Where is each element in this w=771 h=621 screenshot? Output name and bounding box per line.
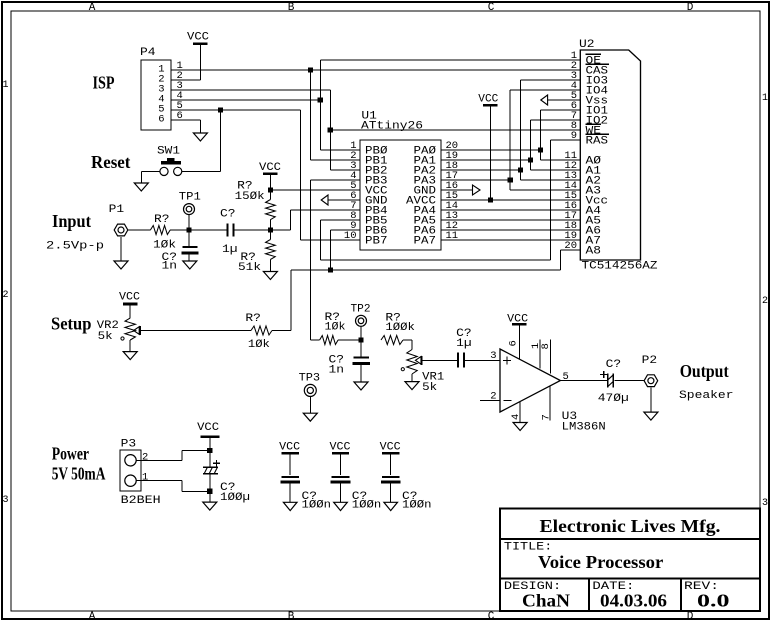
- wire A8 column to U2 pin20: [560, 250, 562, 270]
- ground at VR1: [405, 382, 419, 390]
- wire P4 pin6 to ground: [171, 119, 200, 121]
- wire VR1 to ground: [411, 374, 413, 382]
- svg-text:3: 3: [490, 350, 496, 362]
- wire op-amp output pin 5: [560, 380, 607, 382]
- test point TP1: [184, 204, 195, 215]
- svg-text:P2: P2: [642, 355, 658, 367]
- wire column IO2 to PA1 to A1: [530, 120, 532, 170]
- svg-text:Reset: Reset: [91, 152, 130, 172]
- potentiometer VR2 wiper: [134, 327, 140, 335]
- svg-text:47Øµ: 47Øµ: [598, 393, 629, 405]
- IC U2 body with beveled corner: [580, 50, 640, 260]
- svg-text:VCC: VCC: [380, 441, 401, 453]
- ground at P1: [114, 261, 128, 269]
- IC U1 body: [360, 140, 441, 250]
- junction PA3/IO4/A3: [508, 177, 513, 182]
- wire C 1u to bias node: [234, 229, 271, 231]
- junction AVCC VCC stem: [488, 197, 493, 202]
- svg-text:LM386N: LM386N: [562, 422, 606, 434]
- svg-text:20: 20: [564, 240, 577, 252]
- svg-text:7: 7: [541, 414, 553, 420]
- junction P4.1/PB1 column: [308, 67, 313, 72]
- svg-text:1ØØn: 1ØØn: [402, 500, 432, 512]
- svg-text:1µ: 1µ: [456, 338, 472, 350]
- wire P4 pin4 (MISO net) row 100: [171, 99, 320, 101]
- op-amp pin 1 stub: [539, 340, 541, 369]
- connector P3 pin circles: [125, 455, 136, 466]
- svg-text:TP2: TP2: [351, 304, 371, 316]
- connector P4 body: [141, 60, 171, 130]
- svg-text:VCC: VCC: [279, 441, 300, 453]
- wire C 1u to op-amp +input: [464, 359, 500, 361]
- svg-text:P4: P4: [140, 47, 156, 59]
- svg-text:2: 2: [490, 391, 496, 403]
- svg-text:2: 2: [2, 290, 8, 301]
- svg-text:VCC: VCC: [478, 94, 498, 106]
- svg-text:TP1: TP1: [179, 192, 201, 204]
- wire P4 pin1 to U2 CAS (row 70): [171, 69, 580, 71]
- svg-text:C?: C?: [606, 359, 622, 371]
- svg-text:VCC: VCC: [259, 162, 281, 174]
- svg-text:C?: C?: [220, 209, 236, 221]
- wire column P4.1 down to U1 PB1: [309, 70, 311, 160]
- junction VCC/U1 VCC row: [268, 187, 273, 192]
- title block dividers: [500, 538, 760, 540]
- wire U1 PA6 to U2 A6 row 230: [441, 229, 580, 231]
- wire column IO3 to PA2 to A2: [520, 80, 522, 180]
- capacitor C? 100n (decoupling 3): [390, 455, 392, 476]
- svg-text:VCC: VCC: [119, 292, 140, 304]
- junction PB6/A8/Setup net: [328, 267, 333, 272]
- svg-text:VCC: VCC: [187, 32, 209, 44]
- junction P4.4 on OE/PB0 column: [318, 97, 323, 102]
- wire column IO1 to PA0 to A0: [540, 110, 542, 160]
- svg-text:5k: 5k: [422, 382, 437, 394]
- svg-text:R?: R?: [245, 313, 261, 325]
- wire P4 pin2 to VCC: [171, 79, 200, 81]
- wire setup R 10k to PB6 net column: [272, 330, 291, 332]
- svg-text:2: 2: [762, 296, 768, 307]
- ground at mixer filter cap: [354, 382, 368, 390]
- wire VR1 wiper to C 1u: [422, 359, 457, 361]
- junction PA0/IO1/A0: [538, 147, 543, 152]
- test point TP2: [356, 315, 367, 326]
- connector P2 (output jack): [644, 375, 658, 387]
- wire U1 pin16 GND arrow: [441, 189, 473, 191]
- wire P2 to ground: [650, 388, 652, 413]
- ground at power input: [203, 502, 217, 510]
- svg-text:VCC: VCC: [197, 422, 219, 434]
- wire U1 PB6 row 230 to A8 net: [330, 229, 360, 231]
- wire column IO4 to PA3 to A3: [509, 90, 511, 190]
- svg-text:Voice Processor: Voice Processor: [538, 552, 663, 572]
- svg-text:TC514256AZ: TC514256AZ: [582, 261, 658, 273]
- junction PA2/IO3/A2: [518, 167, 523, 172]
- connector P3 body: [120, 450, 141, 491]
- wire U1 PB3 row 180 to mixer column: [310, 179, 360, 181]
- capacitor C? 100n (decoupling 2): [340, 455, 342, 476]
- junction VCC/C100u top: [207, 448, 212, 453]
- svg-text:3: 3: [2, 495, 8, 506]
- junction input bias node: [268, 227, 273, 232]
- wire U1 AVCC to U2 Vcc row 200: [441, 199, 580, 201]
- ground at decoupling cap 3: [384, 502, 398, 510]
- svg-text:1ØØk: 1ØØk: [385, 322, 415, 334]
- svg-text:1n: 1n: [162, 261, 178, 273]
- wire VCC to op-amp pin 6: [518, 326, 520, 360]
- svg-text:9: 9: [571, 130, 577, 142]
- svg-text:2: 2: [142, 451, 148, 463]
- svg-text:Input: Input: [52, 211, 91, 231]
- svg-text:VCC: VCC: [330, 441, 351, 453]
- svg-text:5: 5: [563, 371, 569, 383]
- op-amp U3 plus marker: [503, 360, 511, 362]
- svg-text:ATtiny26: ATtiny26: [361, 121, 423, 133]
- junction TP1 node: [186, 227, 191, 232]
- svg-text:5V 50mA: 5V 50mA: [52, 463, 106, 483]
- svg-text:3: 3: [762, 498, 768, 509]
- ground at decoupling cap 2: [334, 502, 348, 510]
- wire P3 pin2 to VCC node: [136, 459, 182, 461]
- switch SW1 pushbutton symbol: [161, 161, 181, 164]
- svg-text:Setup: Setup: [51, 314, 91, 334]
- svg-text:04.03.06: 04.03.06: [600, 591, 667, 611]
- svg-text:D: D: [687, 611, 694, 621]
- svg-text:P1: P1: [109, 204, 125, 216]
- wire U1 pin6 GND arrow: [328, 199, 360, 201]
- svg-text:2.5Vp-p: 2.5Vp-p: [46, 241, 104, 253]
- svg-text:B: B: [288, 611, 295, 621]
- svg-text:15Øk: 15Øk: [235, 191, 265, 203]
- ground at decoupling cap 1: [283, 502, 297, 510]
- wire U1 PA2 row 170: [441, 169, 521, 171]
- capacitor C? 100n (decoupling 1): [289, 455, 291, 476]
- wire U2 RAS column: [549, 140, 551, 260]
- wire R 100k to VR1: [403, 339, 412, 341]
- svg-text:C: C: [488, 2, 495, 14]
- svg-text:P3: P3: [121, 439, 137, 451]
- wire TP3 to ground: [309, 396, 311, 413]
- wire SW1 right up to RESET junction: [182, 170, 221, 172]
- svg-text:ChaN: ChaN: [522, 591, 570, 611]
- ground at P2: [644, 412, 658, 420]
- potentiometer VR1 wiper: [415, 357, 421, 365]
- op-amp pin 8 stub: [549, 340, 551, 374]
- potentiometer VR2 5k body: [125, 318, 135, 340]
- svg-text:SW1: SW1: [157, 146, 180, 158]
- svg-text:PA7: PA7: [414, 236, 437, 248]
- svg-text:1: 1: [2, 80, 8, 91]
- test point TP3: [304, 384, 316, 396]
- junction RESET to SW1 branch: [218, 107, 223, 112]
- wire P1 to R 10k: [128, 229, 150, 231]
- wire SW1 left to ground: [141, 170, 160, 172]
- op-amp U3 triangle body: [500, 349, 560, 412]
- wire WE row to U2 pin8 (row 130): [330, 129, 580, 131]
- svg-text:ISP: ISP: [93, 73, 115, 93]
- wire P1 to ground: [120, 237, 122, 261]
- wire P4 pin3 (SCK) to column: [171, 89, 330, 91]
- svg-text:1ØØn: 1ØØn: [302, 500, 332, 512]
- svg-text:B2BEH: B2BEH: [121, 495, 161, 507]
- svg-text:1Øk: 1Øk: [325, 321, 346, 333]
- wire U1 PA5 to U2 A5 row 220: [441, 219, 580, 221]
- wire column SCK down to WE junction and U1 PB2: [329, 90, 331, 170]
- svg-text:R?: R?: [154, 214, 170, 226]
- wire P4 pin5 (RESET) row 110: [171, 109, 301, 111]
- svg-text:1µ: 1µ: [222, 244, 238, 256]
- wire A8 net row 270: [291, 269, 561, 271]
- svg-text:4: 4: [510, 414, 522, 420]
- wire VR2 wiper to R 10k: [141, 330, 251, 332]
- svg-text:PB7: PB7: [365, 236, 388, 248]
- ground at TP3: [303, 413, 317, 421]
- ground at op-amp pin 4: [513, 423, 527, 431]
- svg-text:1ØØn: 1ØØn: [352, 500, 382, 512]
- svg-text:U2: U2: [579, 39, 595, 51]
- op-amp pin 4 wire to ground: [519, 402, 521, 423]
- svg-text:Power: Power: [52, 443, 89, 463]
- svg-text:1: 1: [142, 472, 148, 484]
- svg-text:A8: A8: [586, 246, 602, 258]
- svg-text:6: 6: [158, 114, 164, 126]
- svg-text:1: 1: [762, 93, 768, 104]
- ground at SW1: [134, 183, 148, 191]
- wire TP2 stub: [360, 326, 362, 340]
- svg-text:B: B: [288, 2, 295, 14]
- ground at VR2: [123, 352, 137, 360]
- potentiometer VR1 5k body: [407, 350, 417, 375]
- potentiometer VR2 index mark: [121, 337, 124, 340]
- junction SCK/WE net: [328, 127, 333, 132]
- svg-text:Output: Output: [680, 361, 729, 381]
- svg-text:A: A: [89, 611, 96, 621]
- svg-text:1Øk: 1Øk: [248, 339, 270, 351]
- wire P3 pin1 to ground node: [136, 480, 182, 482]
- ground at input filter cap: [183, 261, 197, 269]
- wire VCC row to U1 pin5: [270, 189, 360, 191]
- wire U1 PB5 to RAS net: [321, 219, 360, 221]
- wire C 470u to P2: [615, 380, 645, 382]
- title block outer box: [500, 509, 760, 611]
- potentiometer VR1 index mark: [401, 368, 404, 371]
- connector P1 (input jack): [114, 224, 128, 236]
- ground at bias divider: [263, 272, 277, 280]
- svg-text:5k: 5k: [98, 331, 113, 343]
- ground at P4 pin6: [193, 133, 207, 141]
- op-amp pin 2 stub wire and number: [480, 399, 500, 401]
- junction C100u bottom / P3 pin1: [207, 489, 212, 494]
- svg-text:6: 6: [508, 340, 520, 346]
- svg-text:10: 10: [344, 230, 357, 242]
- junction PA1/IO2/A1: [528, 157, 533, 162]
- wire R 10k to TP2 node: [338, 339, 361, 341]
- svg-text:0.0: 0.0: [697, 591, 730, 611]
- wire column OE net: U2 OE row 60 down to U1 PB0: [319, 60, 321, 150]
- svg-text:51k: 51k: [238, 262, 261, 274]
- wire TP1 stub: [188, 215, 190, 230]
- svg-text:C: C: [488, 611, 495, 621]
- wire U1 PA1 row 160: [441, 159, 531, 161]
- op-amp U3 minus marker: [504, 399, 512, 401]
- svg-text:1n: 1n: [329, 365, 345, 377]
- wire bias node to U1 PB4: [270, 229, 290, 231]
- wire U2 pin5 Vss with GND arrow: [548, 99, 581, 101]
- wire mixer column to R 10k: [310, 339, 319, 341]
- svg-text:RAS: RAS: [586, 136, 609, 148]
- wire Setup branch column down to Setup row: [290, 270, 292, 331]
- wire column RESET down to U1 PB7 row 240: [300, 110, 302, 240]
- junction TP2 node: [358, 337, 363, 342]
- op-amp pin 7 stub: [549, 386, 551, 421]
- wire U1 PA3 row 180: [441, 179, 510, 181]
- svg-text:A: A: [89, 2, 96, 14]
- wire R 10k to TP1 node: [170, 229, 227, 231]
- svg-text:8: 8: [540, 343, 552, 349]
- svg-text:TP3: TP3: [299, 373, 321, 385]
- svg-text:Speaker: Speaker: [679, 390, 734, 402]
- wire VR2 to ground: [129, 340, 131, 352]
- wire U1 PA4 to U2 A4 row 210: [441, 209, 580, 211]
- svg-text:1Øk: 1Øk: [153, 240, 176, 252]
- svg-text:D: D: [687, 2, 694, 14]
- wire U1 PA7 to U2 A7 row 240: [441, 239, 580, 241]
- wire U1 PA0 row 150: [441, 149, 541, 151]
- svg-text:Electronic Lives Mfg.: Electronic Lives Mfg.: [540, 516, 721, 536]
- svg-text:1ØØµ: 1ØØµ: [220, 492, 250, 504]
- wire to ground below C100u: [209, 491, 211, 502]
